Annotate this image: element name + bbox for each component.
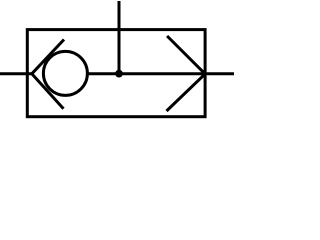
wire right run (87, 72, 235, 75)
wire left port (0, 72, 33, 75)
check valve ball (43, 51, 87, 95)
arrow upper wing (167, 36, 205, 74)
enclosure box (27, 30, 205, 117)
wire pilot top (118, 1, 121, 74)
arrow lower wing (167, 74, 206, 111)
junction dot (115, 70, 123, 78)
check valve seat lower leg (32, 74, 64, 109)
check valve seat upper leg (32, 40, 64, 74)
